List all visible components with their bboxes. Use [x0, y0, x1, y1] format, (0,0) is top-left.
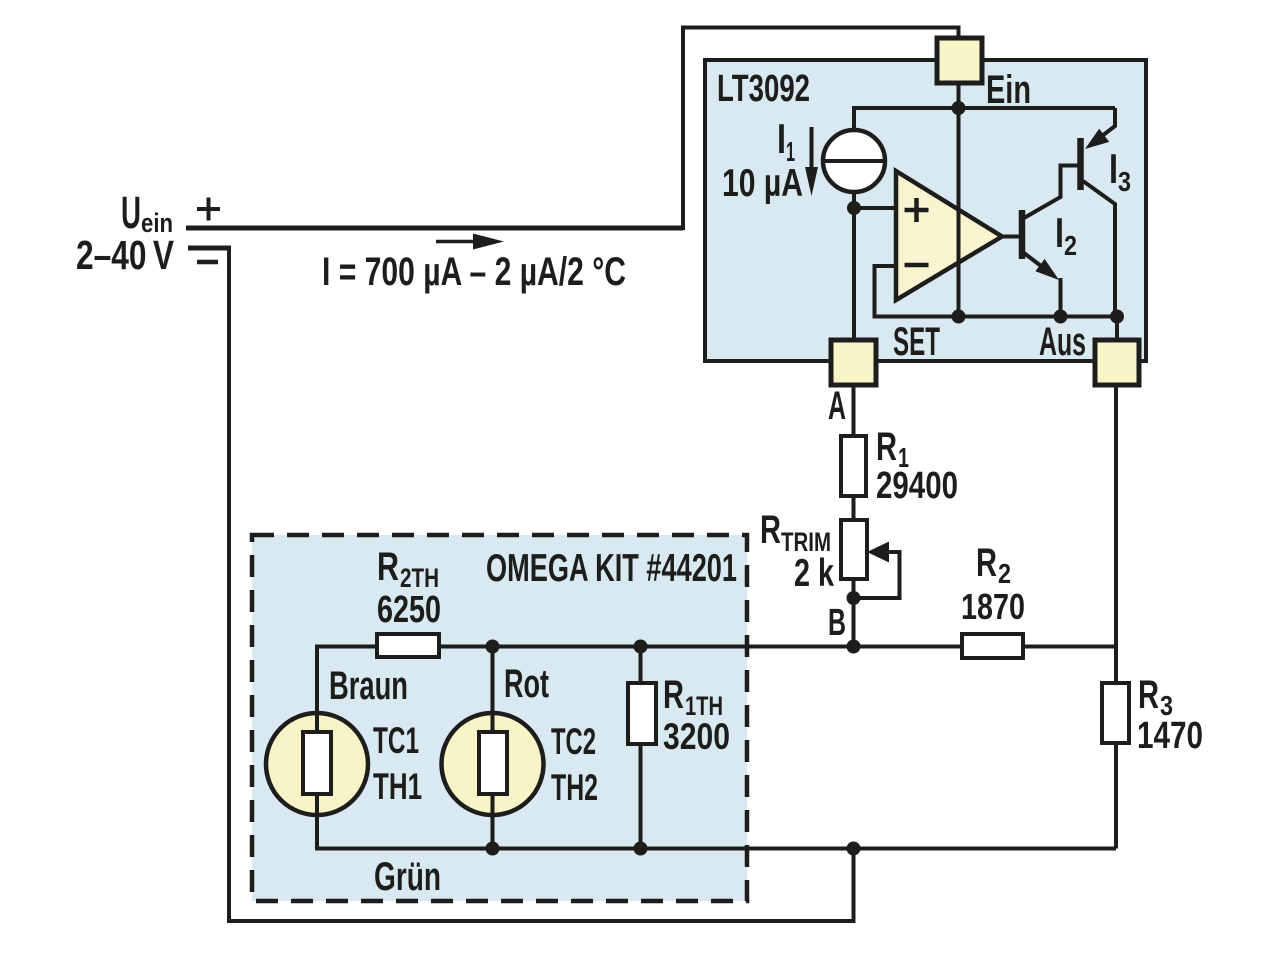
svg-text:3: 3 [1118, 166, 1131, 197]
wire: noninverting input [854, 206, 896, 210]
svg-text:Aus: Aus [1039, 320, 1086, 364]
svg-text:I: I [1109, 145, 1118, 192]
wire: feedback from inverting input to SET rail [875, 266, 1118, 317]
svg-text:2: 2 [1064, 230, 1077, 261]
wire: internal top rail of LT3092 [854, 108, 1115, 130]
minus input mark [905, 263, 929, 268]
current source I1 [823, 130, 885, 192]
svg-text:LT3092: LT3092 [717, 68, 810, 110]
kit top rail nodes [486, 640, 500, 654]
svg-text:1470: 1470 [1137, 715, 1203, 757]
svg-text:I: I [777, 115, 786, 162]
wire: pad A to R1 [852, 385, 856, 437]
wire: op-amp output to Q2 base [1002, 235, 1019, 239]
svg-text:10 µA: 10 µA [722, 162, 803, 205]
wire: I3 collector down to output rail [1083, 181, 1115, 317]
resistor R1 [841, 436, 866, 496]
svg-text:R: R [377, 545, 399, 589]
I1 down arrow [810, 127, 814, 172]
svg-text:Grün: Grün [374, 855, 441, 899]
svg-text:R: R [976, 541, 997, 585]
svg-text:6250: 6250 [377, 589, 441, 631]
plus input mark [905, 198, 929, 222]
resistor R2TH body [377, 634, 439, 657]
wire: current source bottom to SET pad A [852, 192, 856, 341]
node B junction [847, 640, 861, 654]
transistor I3 base bar [1077, 138, 1084, 190]
svg-text:R: R [1138, 673, 1159, 717]
svg-text:TH1: TH1 [373, 766, 422, 807]
resistor R3 [1102, 683, 1129, 743]
svg-text:TC2: TC2 [551, 721, 596, 762]
SET rail nodes [952, 310, 966, 324]
thermocouple TC2 circle [442, 713, 544, 815]
node below trimmer [847, 591, 861, 605]
node under current source [847, 201, 861, 215]
svg-text:A: A [828, 384, 846, 428]
resistor R1TH body [628, 683, 656, 744]
current arrow [436, 240, 480, 244]
svg-text:B: B [828, 602, 846, 644]
svg-text:I = 700 µA – 2 µA/2 °C: I = 700 µA – 2 µA/2 °C [322, 250, 626, 294]
svg-text:2–40 V: 2–40 V [76, 232, 175, 278]
wire: R1 to RTRIM [852, 496, 856, 521]
svg-text:U: U [121, 187, 141, 238]
svg-text:Rot: Rot [504, 662, 549, 706]
svg-text:R: R [876, 425, 897, 469]
minus sign at source [197, 260, 218, 265]
svg-text:SET: SET [893, 320, 940, 364]
trimmer RTRIM body [841, 520, 867, 579]
wire: RTRIM to node B [852, 579, 856, 647]
wire: Aus pad down to R3 [1116, 317, 1117, 684]
thermocouple TC1 circle [266, 713, 368, 815]
bottom rail nodes [486, 842, 500, 856]
svg-text:2: 2 [998, 558, 1011, 589]
wire: below R3 to bottom rail [1114, 743, 1118, 849]
svg-text:I: I [1055, 209, 1064, 256]
pin pad SET (A) [831, 340, 876, 385]
wire: plus plate of Uein [186, 226, 683, 231]
svg-text:TC1: TC1 [373, 720, 419, 761]
svg-text:R: R [663, 673, 684, 717]
transistor I2 base bar [1019, 210, 1026, 259]
plus sign at source [197, 198, 220, 221]
wire: top loop from Uein+ to Ein pad [683, 28, 959, 231]
wire: kit left leg [315, 645, 319, 717]
trimmer wiper arrow [867, 542, 889, 563]
wire: mid rail from kit through node B to R2 [317, 645, 1116, 649]
op-amp U1 [896, 171, 1002, 300]
svg-text:Braun: Braun [329, 664, 408, 708]
wire: I3 emitter from top rail with arrow into bar [1100, 108, 1115, 138]
pin pad Ein [937, 38, 982, 83]
op-amp block LT3092 (IC body) [705, 60, 1146, 361]
wire: Ein pad down through op-amp to SET rail [957, 82, 961, 317]
wire: I2 collector to I3 base [1024, 166, 1078, 219]
resistor R2 [962, 634, 1023, 658]
wire: I2 emitter with arrow [1024, 253, 1045, 269]
svg-text:3200: 3200 [663, 716, 730, 757]
pin pad Aus [1095, 340, 1139, 385]
wire: R1TH leg [639, 645, 643, 685]
svg-text:R: R [760, 508, 781, 552]
wire: minus plate of Uein [188, 246, 231, 251]
wire: kit bottom rail to R3 bottom [317, 847, 1116, 851]
svg-text:1870: 1870 [961, 586, 1025, 627]
svg-text:TH2: TH2 [551, 767, 598, 808]
svg-text:Ein: Ein [986, 68, 1031, 112]
node below Ein pad [952, 101, 966, 115]
wire: TC2 leg [491, 645, 495, 717]
svg-text:OMEGA KIT #44201: OMEGA KIT #44201 [486, 547, 737, 590]
svg-text:29400: 29400 [876, 465, 958, 507]
OMEGA KIT box (dashed) [252, 535, 747, 901]
wire: Uein minus down and bottom return [229, 246, 854, 921]
svg-text:2 k: 2 k [794, 552, 834, 595]
